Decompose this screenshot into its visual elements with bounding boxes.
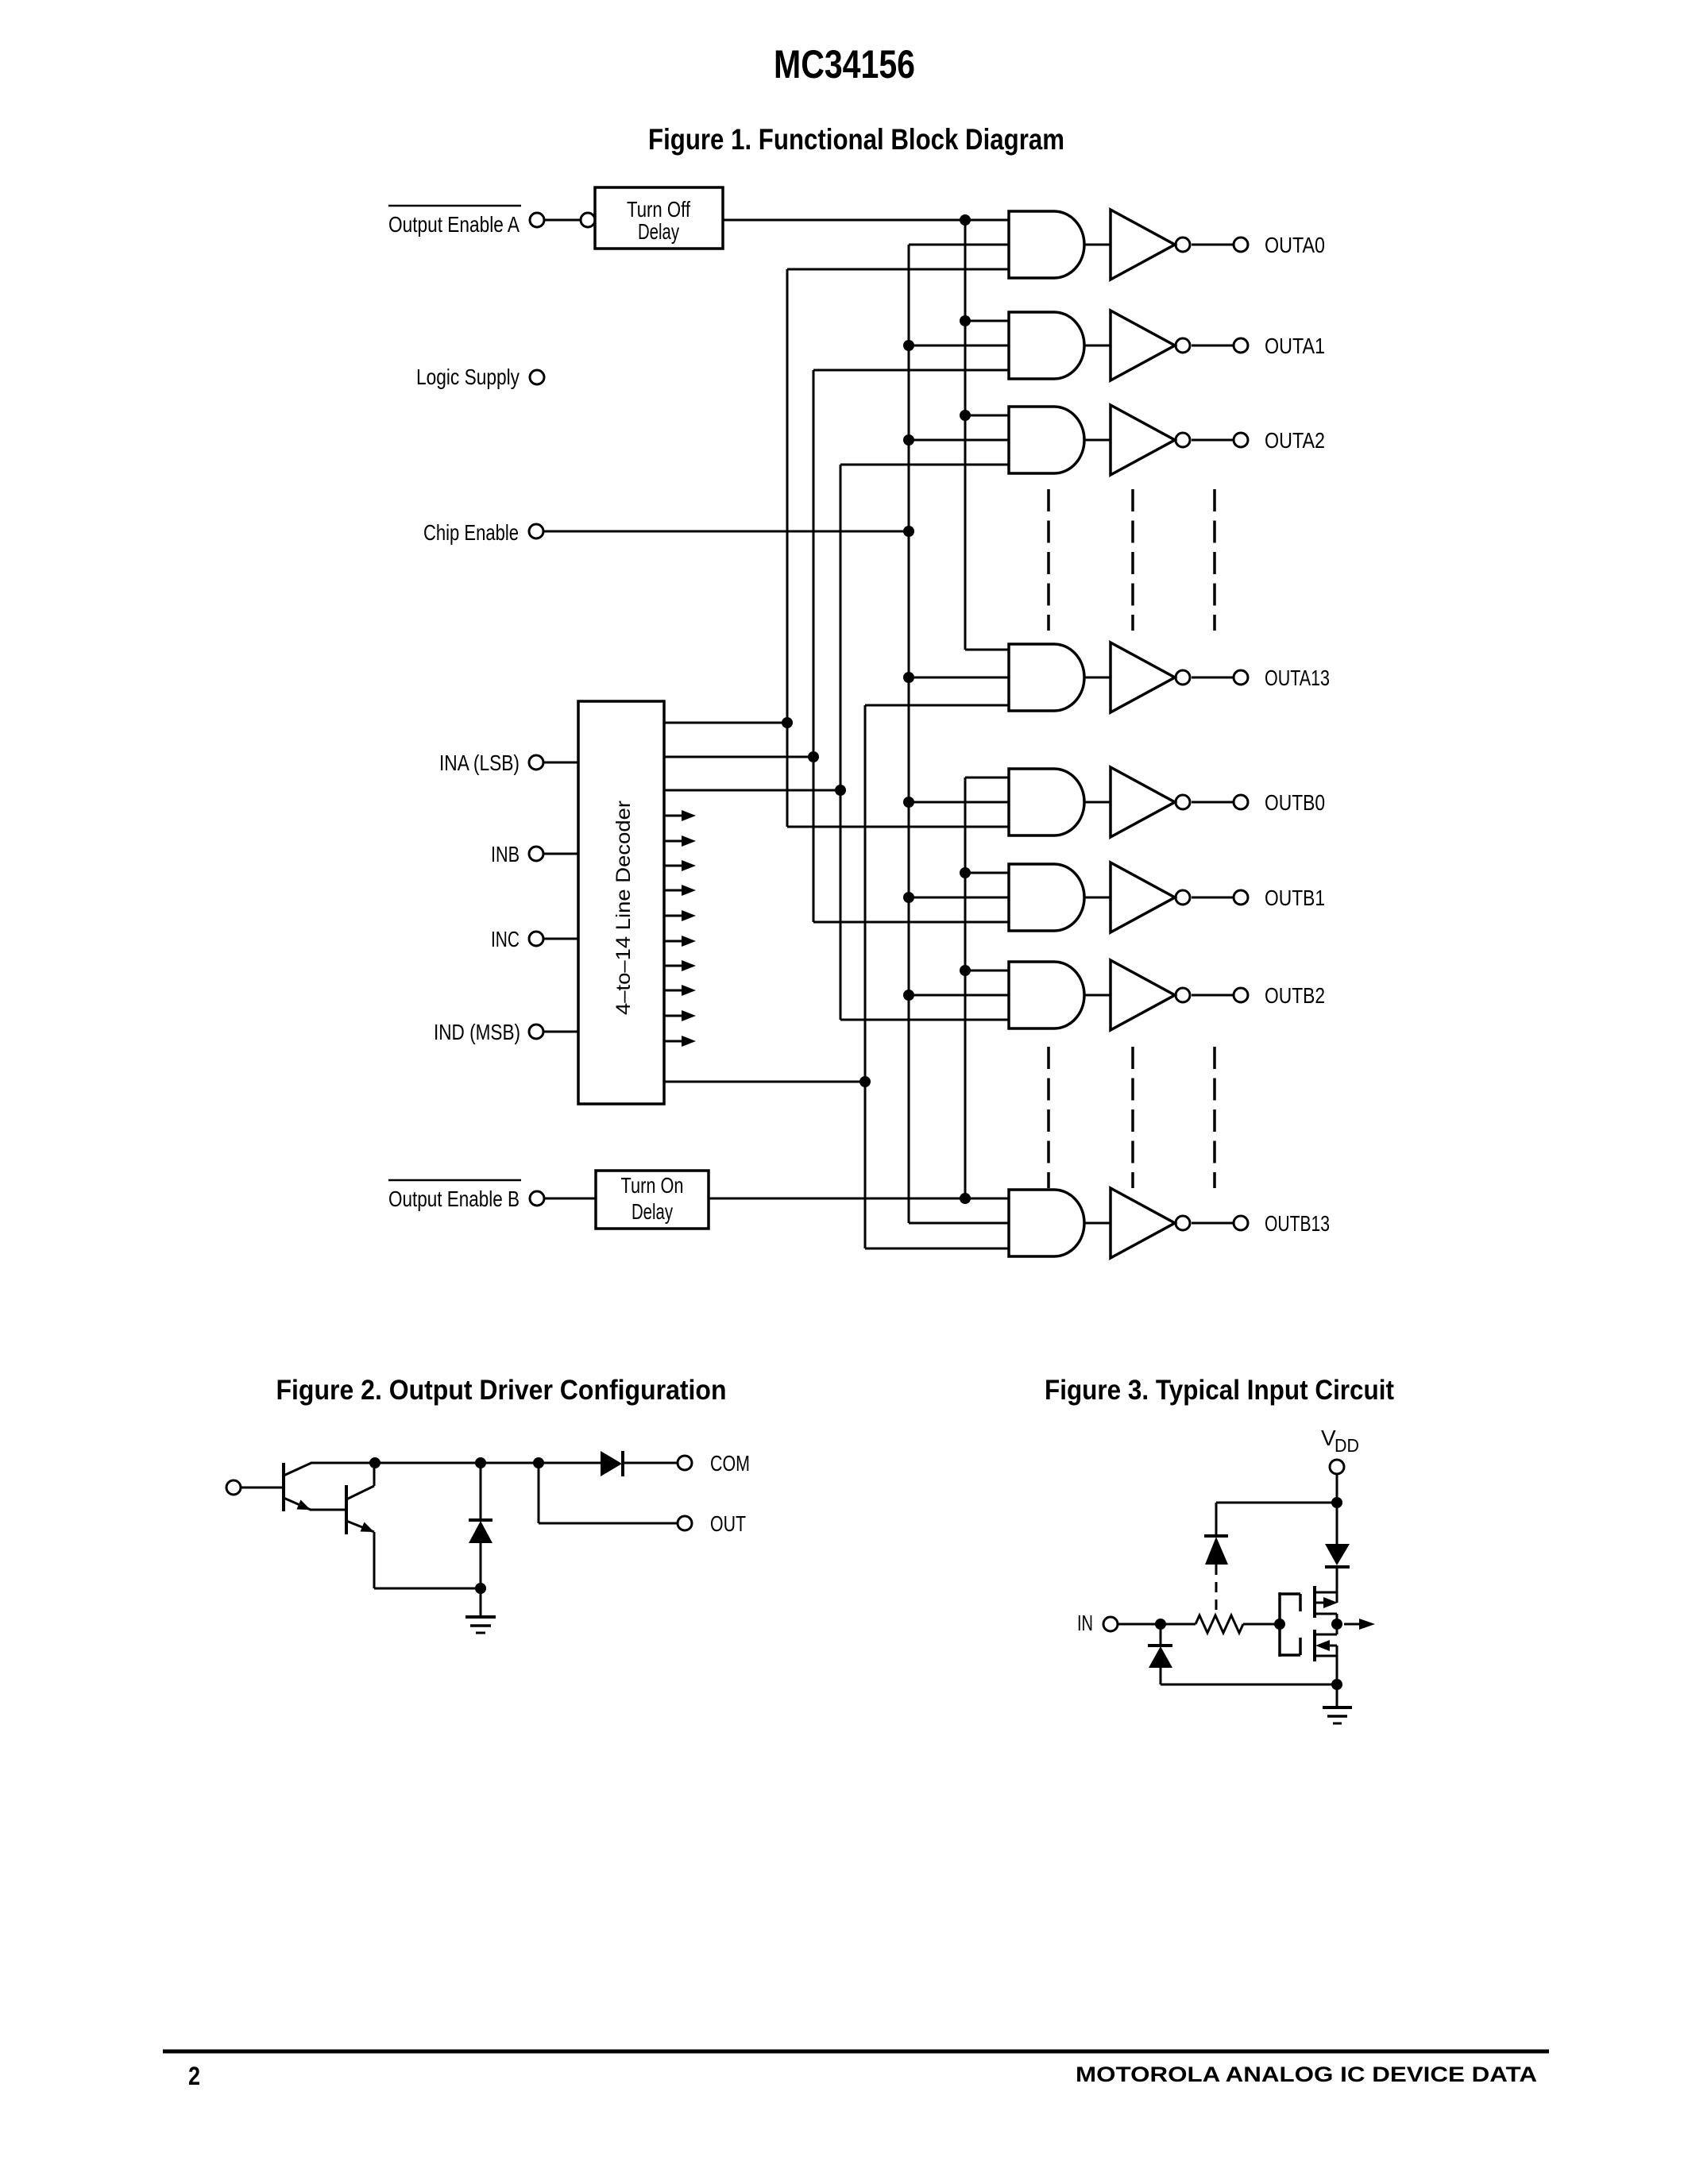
terminal OUT bbox=[678, 1511, 746, 1536]
inverter UA1i bbox=[1111, 311, 1190, 380]
wire chip-enable to gate UA1 middle input bbox=[909, 345, 1009, 347]
wire diode to COM terminal bbox=[623, 1462, 678, 1464]
svg-text:Output Enable A: Output Enable A bbox=[388, 212, 520, 237]
wire PMOS drain to output node bbox=[1336, 1614, 1338, 1634]
terminal VDD bbox=[1330, 1460, 1344, 1474]
terminal OUTA0 bbox=[1234, 233, 1325, 257]
wire dashed substrate connection bbox=[1215, 1565, 1218, 1615]
node ground junction bbox=[1331, 1679, 1342, 1690]
svg-text:Turn Off: Turn Off bbox=[627, 197, 690, 222]
svg-text:Figure 1. Functional Block Dia: Figure 1. Functional Block Diagram bbox=[648, 123, 1064, 156]
terminal INB bbox=[491, 842, 543, 866]
node Q2 collector junction bbox=[369, 1457, 380, 1468]
node gate junction bbox=[1274, 1619, 1285, 1630]
inverter UB2i bbox=[1111, 960, 1190, 1030]
wire Q2 emitter down bbox=[373, 1532, 376, 1588]
wire clamp branch down bbox=[1215, 1503, 1218, 1536]
svg-text:Turn On: Turn On bbox=[621, 1173, 684, 1198]
wire gate UA2 to inverter bbox=[1084, 439, 1111, 442]
svg-text:INC: INC bbox=[491, 927, 520, 951]
wire resistor to gate node bbox=[1243, 1623, 1280, 1626]
wire OEA vertical bus bbox=[964, 220, 967, 650]
decoder output arrow 12 bbox=[664, 1036, 696, 1047]
wire Q2 collector to rail bbox=[373, 1463, 376, 1486]
wire Q1 emitter to Q2 base bbox=[310, 1509, 346, 1511]
and-gate UB2 bbox=[1009, 962, 1084, 1028]
dashed continuation line section A bbox=[1047, 489, 1050, 631]
svg-text:MOTOROLA ANALOG IC DEVICE DATA: MOTOROLA ANALOG IC DEVICE DATA bbox=[1076, 2062, 1537, 2086]
terminal OUTB1 bbox=[1234, 886, 1325, 910]
wire IN to node bbox=[1118, 1623, 1161, 1626]
wire enable to gate UB2 top input bbox=[965, 970, 1009, 972]
wire decoder line to gate UA1 bottom input bbox=[813, 369, 1009, 372]
decoder output arrow 7 bbox=[664, 910, 696, 921]
wire VDD junction to diode D4 bbox=[1336, 1503, 1338, 1544]
svg-text:OUTB0: OUTB0 bbox=[1265, 790, 1325, 815]
wire OUT branch to terminal bbox=[539, 1522, 678, 1525]
and-gate UA2 bbox=[1009, 407, 1084, 473]
wire gate UA13 to inverter bbox=[1084, 677, 1111, 679]
svg-text:Delay: Delay bbox=[638, 219, 679, 244]
node output junction bbox=[1331, 1619, 1342, 1630]
transistor Q2 (NPN darlington output) bbox=[346, 1485, 374, 1534]
dashed continuation line section B bbox=[1047, 1047, 1050, 1188]
svg-text:2: 2 bbox=[188, 2062, 200, 2090]
diode D5 (input clamp to ground) bbox=[1148, 1624, 1172, 1684]
node decoder output 1 junction bbox=[808, 751, 819, 762]
wire gate UB1 to inverter bbox=[1084, 897, 1111, 899]
svg-text:Logic Supply: Logic Supply bbox=[416, 365, 520, 389]
terminal OUTA2 bbox=[1234, 428, 1325, 453]
dashed continuation line section B bbox=[1213, 1047, 1216, 1188]
svg-text:OUTA0: OUTA0 bbox=[1265, 233, 1325, 257]
wire enable to gate UA13 top input bbox=[965, 649, 1009, 651]
terminal IND (MSB) bbox=[434, 1020, 543, 1044]
wire inverter UB13i to terminal bbox=[1192, 1222, 1234, 1225]
terminal Logic Supply bbox=[416, 365, 544, 389]
wire OEA from Turn Off Delay to gate A0 top input bbox=[723, 219, 1009, 222]
wire decoder output 1 bbox=[664, 756, 813, 758]
wire output arrow bbox=[1344, 1619, 1375, 1630]
wire chip-enable to gate UB0 middle input bbox=[909, 801, 1009, 804]
wire gate UA1 to inverter bbox=[1084, 345, 1111, 347]
terminal INC bbox=[491, 927, 543, 951]
svg-text:Delay: Delay bbox=[632, 1199, 673, 1224]
inverter bubble at Turn Off Delay input bbox=[581, 213, 595, 227]
ground (driver) bbox=[465, 1617, 496, 1633]
svg-text:OUTA13: OUTA13 bbox=[1265, 666, 1330, 690]
wire OEB terminal to Turn On Delay bbox=[544, 1198, 596, 1200]
wire decoder line to gate UA13 bottom input bbox=[865, 704, 1009, 707]
wire Chip Enable horizontal bbox=[543, 531, 909, 533]
wire chip-enable to gate UA0 middle input bbox=[909, 244, 1009, 246]
wire INB to decoder bbox=[543, 853, 578, 855]
ground (input circuit) bbox=[1323, 1707, 1352, 1723]
wire gate UB0 to inverter bbox=[1084, 801, 1111, 804]
wire rail to zener cathode bbox=[480, 1463, 482, 1520]
svg-text:IN: IN bbox=[1077, 1611, 1093, 1635]
wire OUT branch down bbox=[538, 1463, 540, 1523]
inverter UA2i bbox=[1111, 405, 1190, 475]
wire chip-enable to gate UA2 middle input bbox=[909, 439, 1009, 442]
and-gate UB13 bbox=[1009, 1190, 1084, 1256]
decoder output arrow 5 bbox=[664, 860, 696, 871]
wire inverter UA1i to terminal bbox=[1192, 345, 1234, 347]
terminal COM bbox=[678, 1451, 750, 1476]
diode D4 (series from VDD) bbox=[1325, 1544, 1350, 1567]
node VDD junction bbox=[1331, 1497, 1342, 1508]
inverter UB0i bbox=[1111, 767, 1190, 837]
decoder output arrow 9 bbox=[664, 960, 696, 971]
wire OEB from Turn On Delay to gate B13 top input bbox=[709, 1198, 1009, 1200]
terminal INA (LSB) bbox=[439, 751, 543, 775]
svg-text:DD: DD bbox=[1335, 1435, 1359, 1456]
and-gate UB0 bbox=[1009, 769, 1084, 835]
node decoder output 13 junction bbox=[859, 1076, 871, 1087]
svg-text:Output Enable B: Output Enable B bbox=[388, 1187, 520, 1211]
wire inverter UB1i to terminal bbox=[1192, 897, 1234, 899]
wire enable to gate UA1 top input bbox=[965, 320, 1009, 322]
and-gate UA0 bbox=[1009, 211, 1084, 278]
transistor Q3 P-channel MOSFET bbox=[1315, 1586, 1338, 1618]
terminal OUTA13 bbox=[1234, 666, 1330, 690]
wire ground return bbox=[1161, 1684, 1337, 1686]
wire INC to decoder bbox=[543, 938, 578, 940]
inverter UA13i bbox=[1111, 642, 1190, 712]
wire decoder line to gate UA2 bottom input bbox=[840, 464, 1009, 466]
wire zener to ground bbox=[480, 1588, 482, 1617]
decoder output arrow 6 bbox=[664, 885, 696, 896]
wire collector rail bbox=[311, 1462, 601, 1464]
svg-text:OUTB2: OUTB2 bbox=[1265, 983, 1325, 1008]
terminal driver input bbox=[226, 1480, 241, 1495]
svg-text:OUT: OUT bbox=[710, 1511, 746, 1536]
label VDD bbox=[1321, 1426, 1359, 1456]
wire INA to decoder bbox=[543, 762, 578, 764]
block Turn Off Delay bbox=[595, 187, 723, 249]
footer rule bbox=[163, 2050, 1549, 2054]
wire diode D4 to PMOS source bbox=[1336, 1567, 1338, 1603]
terminal IN bbox=[1103, 1617, 1118, 1631]
node OUT branch junction bbox=[533, 1457, 544, 1468]
node zener anode junction bbox=[475, 1583, 486, 1594]
wire decoder output 13 vertical bus bbox=[864, 705, 867, 1248]
dashed continuation line section A bbox=[1131, 489, 1134, 631]
terminal OUTB2 bbox=[1234, 983, 1325, 1008]
terminal OUTA1 bbox=[1234, 334, 1325, 358]
and-gate UB1 bbox=[1009, 864, 1084, 931]
wire decoder output 1 vertical bus bbox=[813, 370, 815, 922]
wire enable to gate UB1 top input bbox=[965, 872, 1009, 874]
wire to ground symbol bbox=[1336, 1684, 1338, 1707]
wire decoder output 13 bbox=[664, 1081, 865, 1083]
inverter UA0i bbox=[1111, 210, 1190, 280]
wire enable to gate UA2 top input bbox=[965, 415, 1009, 417]
wire inverter UA13i to terminal bbox=[1192, 677, 1234, 679]
node OEB junction at B13 bbox=[960, 1193, 971, 1204]
dashed continuation line section B bbox=[1131, 1047, 1134, 1188]
svg-text:Figure 2. Output Driver Config: Figure 2. Output Driver Configuration bbox=[276, 1375, 727, 1406]
wire inverter UB2i to terminal bbox=[1192, 994, 1234, 997]
inverter UB13i bbox=[1111, 1188, 1190, 1258]
transistor Q1 (NPN darlington input) bbox=[284, 1463, 311, 1511]
wire decoder line to gate UB0 bottom input bbox=[787, 826, 1009, 828]
svg-text:OUTB13: OUTB13 bbox=[1265, 1211, 1330, 1236]
wire VDD to clamp diode branch bbox=[1216, 1502, 1337, 1504]
wire chip-enable to gate UB13 middle input bbox=[909, 1222, 1009, 1225]
node decoder output 0 junction bbox=[782, 717, 793, 728]
wire decoder output 2 bbox=[664, 789, 840, 792]
wire inverter UA2i to terminal bbox=[1192, 439, 1234, 442]
wire node to resistor bbox=[1161, 1623, 1196, 1626]
wire NMOS source to ground node bbox=[1336, 1646, 1338, 1684]
wire gate UB2 to inverter bbox=[1084, 994, 1111, 997]
dashed continuation line section A bbox=[1213, 489, 1216, 631]
wire IND to decoder bbox=[543, 1031, 578, 1033]
node zener top junction bbox=[475, 1457, 486, 1468]
svg-text:OUTA2: OUTA2 bbox=[1265, 428, 1325, 453]
wire CE vertical bus bbox=[908, 245, 910, 1223]
svg-text:IND (MSB): IND (MSB) bbox=[434, 1020, 520, 1044]
wire decoder line to gate UB2 bottom input bbox=[840, 1019, 1009, 1021]
wire chip-enable to gate UB2 middle input bbox=[909, 994, 1009, 997]
wire inverter UA0i to terminal bbox=[1192, 244, 1234, 246]
node IN junction bbox=[1155, 1619, 1166, 1630]
wire OEB vertical bus bbox=[964, 778, 967, 1198]
svg-text:Chip Enable: Chip Enable bbox=[423, 520, 519, 545]
decoder output arrow 11 bbox=[664, 1010, 696, 1021]
terminal Chip Enable bbox=[423, 520, 543, 545]
wire decoder output 2 vertical bus bbox=[840, 465, 842, 1020]
wire chip-enable to gate UB1 middle input bbox=[909, 897, 1009, 899]
svg-text:INB: INB bbox=[491, 842, 520, 866]
wire enable to gate UB0 top input bbox=[965, 777, 1009, 779]
transistor Q4 N-channel MOSFET bbox=[1315, 1630, 1337, 1661]
zener diode D2 (clamp) bbox=[469, 1520, 492, 1588]
terminal OUTB13 bbox=[1234, 1211, 1330, 1236]
wire decoder output 0 bbox=[664, 722, 787, 724]
inverter UB1i bbox=[1111, 862, 1190, 932]
svg-text:Figure 3. Typical Input Circui: Figure 3. Typical Input Circuit bbox=[1045, 1375, 1394, 1406]
mosfet gate electrode (CMOS pair) bbox=[1280, 1592, 1300, 1657]
decoder output arrow 3 bbox=[664, 810, 696, 821]
wire decoder line to gate UB1 bottom input bbox=[813, 921, 1009, 924]
diode D3 (input clamp to VDD) bbox=[1204, 1536, 1228, 1565]
svg-text:4–to–14 Line Decoder: 4–to–14 Line Decoder bbox=[612, 801, 635, 1015]
decoder output arrow 4 bbox=[664, 835, 696, 847]
terminal OUTB0 bbox=[1234, 790, 1325, 815]
svg-text:INA (LSB): INA (LSB) bbox=[439, 751, 520, 775]
diode D1 to COM bbox=[601, 1451, 623, 1476]
wire gate UA0 to inverter bbox=[1084, 244, 1111, 246]
svg-text:MC34156: MC34156 bbox=[774, 42, 915, 87]
wire decoder output 0 vertical bus bbox=[786, 269, 789, 827]
node OEA junction at A0 bbox=[960, 214, 971, 226]
decoder output arrow 10 bbox=[664, 985, 696, 996]
wire chip-enable to gate UA13 middle input bbox=[909, 677, 1009, 679]
decoder output arrow 8 bbox=[664, 936, 696, 947]
block Turn On Delay bbox=[596, 1171, 709, 1229]
wire VDD down bbox=[1336, 1474, 1338, 1503]
node decoder output 2 junction bbox=[835, 785, 846, 796]
wire inverter UB0i to terminal bbox=[1192, 801, 1234, 804]
node CE junction bbox=[903, 526, 914, 537]
resistor R1 (input series) bbox=[1196, 1615, 1243, 1633]
svg-text:COM: COM bbox=[710, 1451, 750, 1476]
wire decoder line to gate UA0 bottom input bbox=[787, 268, 1009, 271]
wire gate UB13 to inverter bbox=[1084, 1222, 1111, 1225]
block U1 4-to-14 Line Decoder bbox=[578, 701, 664, 1104]
wire OEA terminal to delay bubble bbox=[544, 219, 581, 222]
and-gate UA1 bbox=[1009, 312, 1084, 379]
and-gate UA13 bbox=[1009, 644, 1084, 711]
terminal Output Enable B (active low) bbox=[388, 1180, 544, 1211]
wire Q2 emitter to zener anode bbox=[374, 1588, 481, 1590]
svg-text:OUTA1: OUTA1 bbox=[1265, 334, 1325, 358]
wire input to Q1 base bbox=[241, 1487, 284, 1489]
wire decoder line to gate UB13 bottom input bbox=[865, 1248, 1009, 1250]
terminal Output Enable A (active low) bbox=[388, 206, 544, 237]
svg-text:OUTB1: OUTB1 bbox=[1265, 886, 1325, 910]
